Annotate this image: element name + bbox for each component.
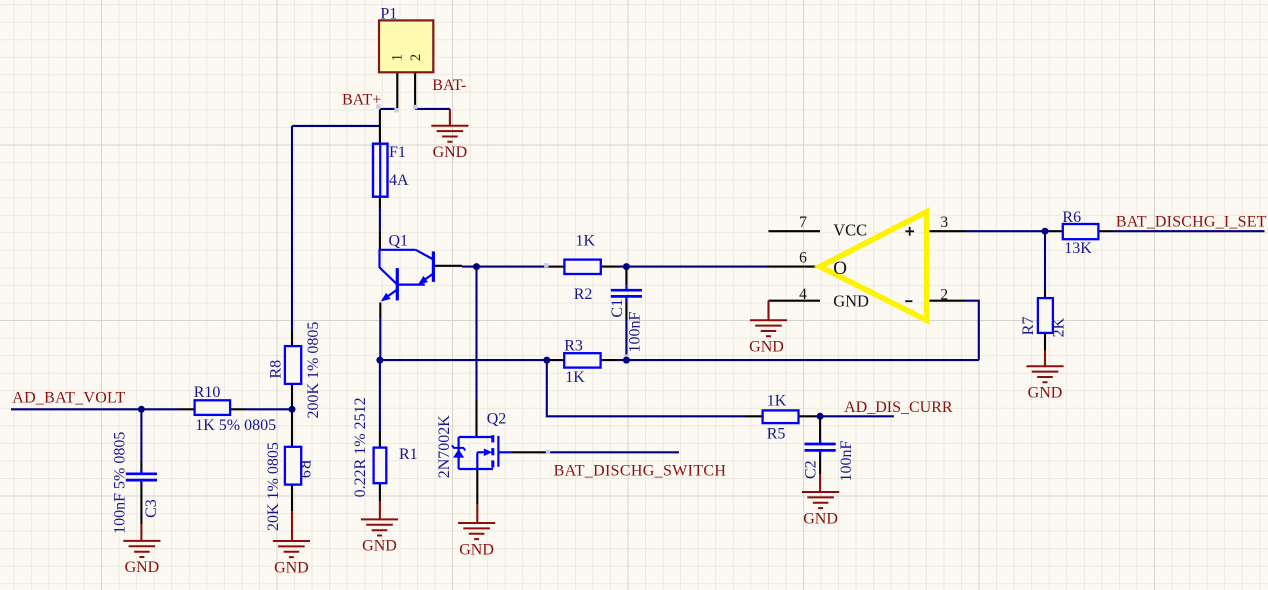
svg-text:Q1: Q1 [389, 233, 409, 250]
svg-text:R3: R3 [564, 337, 583, 354]
svg-text:100nF: 100nF [838, 441, 855, 482]
svg-text:R2: R2 [574, 286, 593, 303]
svg-text:GND: GND [274, 559, 309, 576]
svg-text:R9: R9 [296, 460, 313, 479]
svg-text:13K: 13K [1064, 240, 1092, 257]
svg-text:1K: 1K [565, 369, 585, 386]
svg-text:BAT+: BAT+ [342, 92, 381, 109]
svg-text:R1: R1 [399, 446, 418, 463]
svg-text:20K 1% 0805: 20K 1% 0805 [265, 442, 282, 531]
svg-text:VCC: VCC [833, 221, 867, 240]
svg-text:1: 1 [389, 54, 405, 61]
svg-text:GND: GND [803, 510, 838, 527]
svg-text:R6: R6 [1062, 209, 1081, 226]
svg-text:0.22R 1% 2512: 0.22R 1% 2512 [352, 397, 369, 497]
svg-text:2N7002K: 2N7002K [436, 415, 453, 479]
svg-text:R10: R10 [194, 384, 221, 401]
svg-text:GND: GND [833, 292, 869, 311]
svg-text:R8: R8 [268, 360, 285, 379]
svg-text:1K: 1K [576, 233, 596, 250]
svg-text:R5: R5 [767, 425, 786, 442]
svg-text:Q2: Q2 [487, 411, 507, 428]
svg-text:P1: P1 [380, 5, 397, 22]
svg-text:AD_DIS_CURR: AD_DIS_CURR [844, 399, 953, 416]
svg-text:GND: GND [433, 144, 468, 161]
svg-text:GND: GND [1028, 385, 1063, 402]
svg-text:1K: 1K [767, 392, 787, 409]
svg-text:7: 7 [799, 214, 807, 231]
svg-text:2: 2 [940, 286, 948, 303]
svg-text:100nF: 100nF [627, 312, 644, 353]
svg-text:1K 5% 0805: 1K 5% 0805 [195, 417, 276, 434]
svg-text:BAT_DISCHG_I_SET: BAT_DISCHG_I_SET [1116, 213, 1267, 230]
svg-text:C1: C1 [609, 299, 626, 318]
svg-text:R7: R7 [1020, 317, 1037, 336]
svg-text:BAT_DISCHG_SWITCH: BAT_DISCHG_SWITCH [554, 463, 727, 480]
svg-text:F1: F1 [389, 144, 406, 161]
svg-text:C2: C2 [803, 460, 820, 479]
svg-text:2: 2 [408, 54, 424, 61]
svg-text:GND: GND [362, 538, 397, 555]
svg-text:4: 4 [799, 286, 807, 303]
svg-text:4A: 4A [389, 172, 409, 189]
svg-text:AD_BAT_VOLT: AD_BAT_VOLT [12, 390, 125, 407]
svg-text:GND: GND [459, 541, 494, 558]
svg-text:200K 1% 0805: 200K 1% 0805 [305, 322, 322, 419]
svg-text:6: 6 [799, 250, 807, 267]
svg-text:O: O [833, 258, 847, 279]
svg-text:C3: C3 [143, 499, 160, 518]
svg-text:2K: 2K [1051, 317, 1068, 337]
svg-text:GND: GND [125, 559, 160, 576]
svg-text:BAT-: BAT- [432, 77, 466, 94]
svg-text:100nF 5% 0805: 100nF 5% 0805 [112, 432, 129, 534]
svg-text:3: 3 [940, 214, 948, 231]
svg-text:GND: GND [749, 339, 784, 356]
